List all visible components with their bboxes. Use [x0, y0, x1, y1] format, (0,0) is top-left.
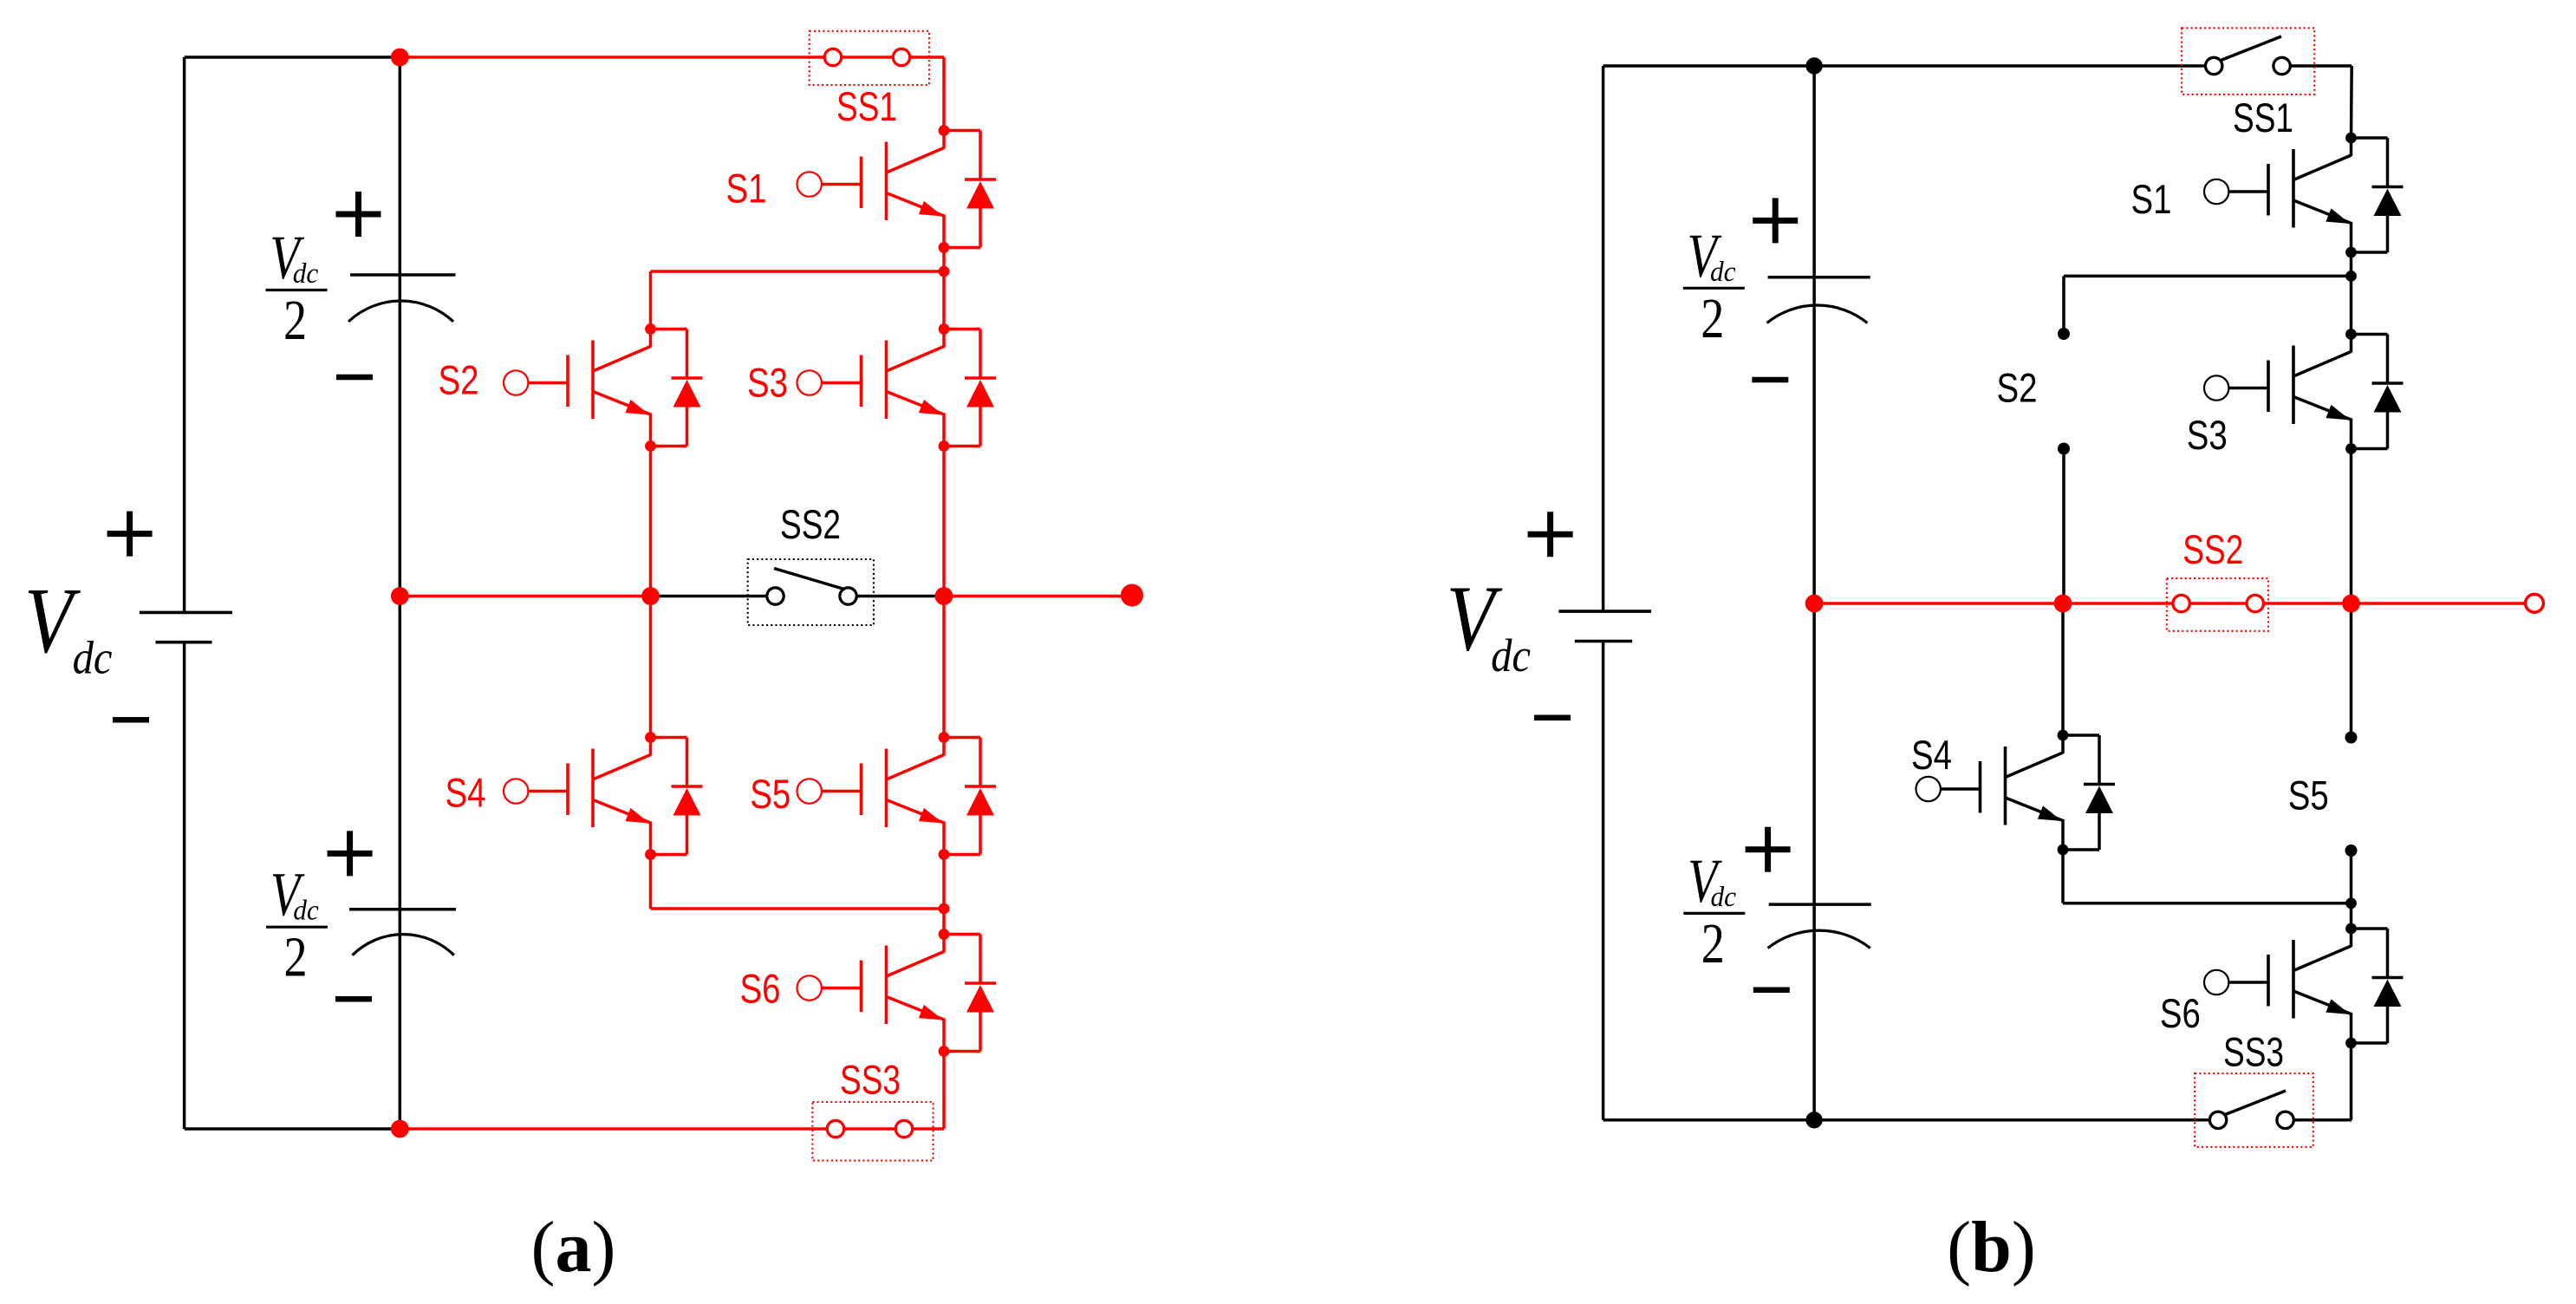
svg-text:S1: S1 — [726, 166, 767, 212]
svg-text:S1: S1 — [2131, 176, 2172, 222]
svg-text:SS1: SS1 — [2233, 95, 2293, 140]
svg-text:S3: S3 — [2187, 412, 2228, 458]
svg-text:S2: S2 — [1997, 365, 2038, 411]
svg-text:SS3: SS3 — [2223, 1029, 2284, 1075]
svg-text:S4: S4 — [1911, 732, 1952, 778]
svg-text:dc: dc — [1710, 255, 1736, 287]
svg-text:S5: S5 — [2288, 773, 2329, 818]
svg-text:SS2: SS2 — [780, 501, 841, 547]
svg-text:S6: S6 — [740, 966, 781, 1012]
svg-text:2: 2 — [283, 926, 307, 989]
svg-text:S2: S2 — [439, 357, 479, 403]
svg-text:dc: dc — [293, 894, 319, 926]
svg-text:2: 2 — [1701, 287, 1724, 350]
svg-text:(b): (b) — [1947, 1207, 2036, 1288]
svg-text:S5: S5 — [750, 771, 790, 817]
svg-text:2: 2 — [283, 289, 307, 352]
svg-text:dc: dc — [73, 632, 113, 684]
svg-text:SS2: SS2 — [2182, 526, 2243, 572]
svg-text:SS3: SS3 — [840, 1057, 901, 1103]
svg-text:(a): (a) — [531, 1207, 616, 1288]
svg-text:SS1: SS1 — [836, 83, 897, 129]
svg-text:dc: dc — [1711, 880, 1737, 912]
svg-text:2: 2 — [1701, 912, 1725, 975]
svg-text:S3: S3 — [747, 360, 788, 406]
svg-text:dc: dc — [1491, 629, 1531, 681]
svg-text:S4: S4 — [446, 770, 486, 816]
svg-text:dc: dc — [293, 257, 319, 289]
svg-text:S6: S6 — [2160, 990, 2201, 1036]
